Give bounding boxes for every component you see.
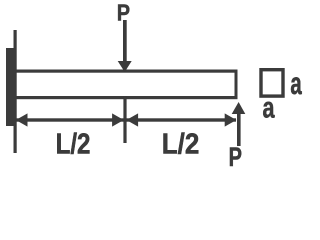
dimension arrowhead right (points right) <box>225 113 237 126</box>
beam right edge <box>235 70 238 100</box>
force arrow P (up) head <box>232 102 246 114</box>
svg-text:P: P <box>117 0 130 26</box>
svg-text:a: a <box>290 65 302 101</box>
force arrow P (down) head <box>118 61 132 72</box>
beam top line <box>15 70 238 73</box>
svg-text:a: a <box>262 90 274 124</box>
dimension arrowhead mid-left (points right) <box>112 113 124 126</box>
force arrow P (down) shaft <box>123 20 127 62</box>
force arrow P (up) shaft <box>237 112 241 146</box>
dimension line <box>16 118 236 121</box>
svg-text:L/2: L/2 <box>56 127 91 160</box>
midspan tick <box>123 96 126 143</box>
svg-text:P: P <box>229 142 242 171</box>
dimension arrowhead left (at wall) <box>16 113 28 126</box>
cross-section square <box>261 70 283 96</box>
svg-text:L/2: L/2 <box>162 127 200 160</box>
wall thin vertical line <box>14 30 17 153</box>
dimension arrowhead mid-right (points left) <box>126 113 138 126</box>
wall thick bar (fixed support) <box>6 48 16 126</box>
beam bottom line <box>15 96 238 99</box>
